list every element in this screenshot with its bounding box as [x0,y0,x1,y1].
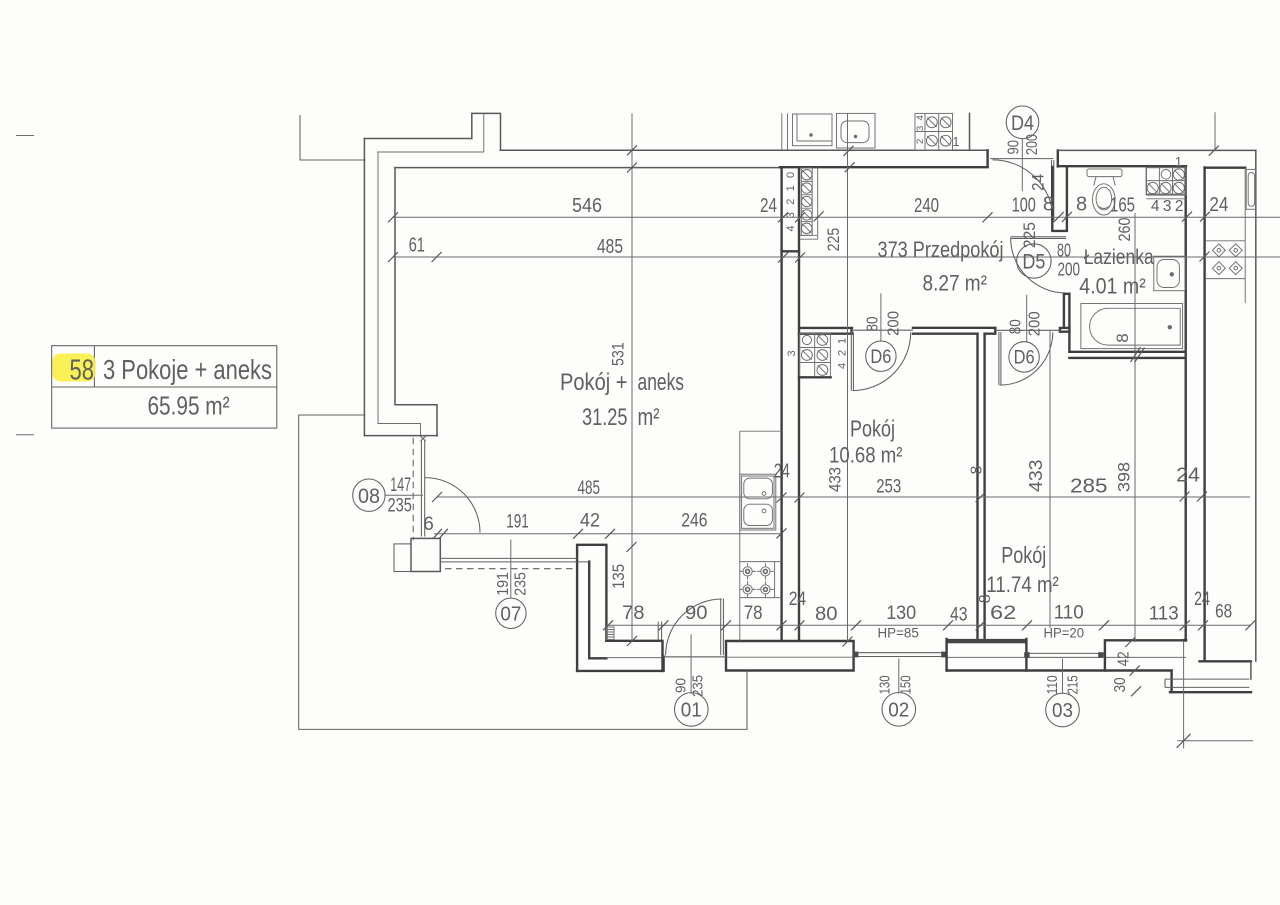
svg-text:8.27 m²: 8.27 m² [923,271,988,296]
svg-text:90: 90 [674,678,690,693]
outline of lower neighbouring area [299,415,747,729]
svg-text:3: 3 [785,212,797,218]
door 01 threshold [664,656,726,658]
svg-text:24: 24 [1194,588,1210,610]
svg-text:58: 58 [70,354,95,386]
chain C dimension line y=497 [437,496,1251,498]
door D6R arc [1000,332,1053,385]
D6R notch jamb [1060,328,1070,332]
hallway closet shelf column [801,167,817,239]
door D4 leaf [1052,160,1054,220]
svg-text:43: 43 [950,603,968,625]
bathtub [1081,304,1183,349]
svg-text:398: 398 [1115,462,1134,492]
svg-text:433: 433 [825,467,844,492]
svg-text:200: 200 [1024,134,1041,155]
bottom band left segment top [606,640,662,642]
window 03 end caps [1024,652,1029,658]
svg-text:78: 78 [744,602,763,624]
svg-text:24: 24 [774,461,790,483]
north wall outer right of D4 [1058,149,1256,151]
dashed lintel line window 07 [445,568,577,570]
right corner step edge [1250,661,1252,679]
kitchen wall cap at closet bottom [782,250,799,252]
SEC-TEXT [70,112,1233,722]
left margin dash bottom [16,434,34,436]
svg-text:62: 62 [990,602,1016,624]
door D6L sill [852,329,913,331]
svg-text:240: 240 [914,195,939,217]
ticks vertical chain x=632 [627,145,638,646]
ticks chain D [433,528,787,539]
SEC-DIMS [16,106,1280,749]
shower square neighbour top [793,114,833,146]
svg-text:D4: D4 [1011,112,1034,135]
svg-text:4: 4 [785,225,797,231]
svg-text:4: 4 [1151,198,1160,215]
svg-text:135: 135 [609,564,628,589]
closet digits column [785,172,797,232]
svg-text:90: 90 [1005,140,1022,155]
room divider wall segment B [913,328,995,334]
window 07 pier bold block [411,538,440,571]
svg-text:68: 68 [1215,600,1232,622]
SEC-FIX [607,113,1256,640]
svg-text:373 Przedpokój: 373 Przedpokój [878,237,1004,262]
door 01 left jamb [658,622,661,641]
svg-text:2: 2 [915,139,926,144]
chain A dimension line y=217 [393,216,1280,218]
svg-text:3: 3 [915,126,926,131]
callout 02 circle [882,693,916,727]
bottom band left outer face [577,657,664,671]
kitchen counter aneks [740,431,782,641]
west wall inner face [395,168,437,436]
svg-text:1: 1 [785,185,797,191]
kitchen strip left wall [1203,168,1205,662]
tick bathroom 260 chain double slash [1131,347,1145,363]
svg-text:546: 546 [572,195,602,217]
SEC-WALLS [299,113,1256,729]
svg-text:3 Pokoje + aneks: 3 Pokoje + aneks [103,354,272,385]
door D6L leaf [851,332,853,391]
callout 07 circle [496,598,526,628]
window 07 glazing [440,558,589,562]
svg-text:485: 485 [597,236,623,258]
bottom right thin band [1165,679,1249,687]
svg-text:31.25: 31.25 [582,404,628,431]
door 01 leaf [721,599,724,656]
svg-text:D6: D6 [870,346,891,368]
svg-text:80: 80 [1057,240,1071,260]
svg-text:2: 2 [785,199,797,205]
chain F dimension line bottom right [1177,740,1253,742]
callout D6 left circle [866,341,896,371]
apartment label box [52,346,277,428]
svg-text:65.95 m²: 65.95 m² [148,391,230,421]
ticks chain C [432,492,1207,503]
chimney slot line [483,113,485,152]
callout D5 circle [1017,244,1051,278]
north wall inner face [395,167,780,169]
svg-text:30: 30 [1112,677,1129,692]
svg-text:HP=20: HP=20 [1044,626,1085,641]
tick x=1215 top [1209,146,1219,156]
band left-of-door right edge [661,641,663,671]
kitchen strip top cap [1205,166,1246,168]
bathroom washbasin [1154,256,1185,291]
window 02 end caps [853,652,859,658]
extension line bottom right [1183,642,1185,749]
wardrobe closet pokoj 10.68 [800,333,831,378]
svg-text:11.74 m²: 11.74 m² [986,572,1059,597]
tick chain F [1177,734,1191,748]
svg-text:07: 07 [500,603,521,625]
window 07 pier thin part [394,544,411,572]
chain D dimension line y=534 [434,533,782,535]
svg-text:531: 531 [608,342,627,366]
svg-text:80: 80 [815,603,838,625]
hallway closet bottom bar [800,235,818,239]
svg-text:80: 80 [864,316,881,331]
svg-text:24: 24 [1209,194,1228,216]
svg-text:aneks: aneks [638,369,685,396]
hallway top wall / room divider wall segment A [799,328,852,334]
chain B dimension line y=257 [393,256,1280,258]
svg-text:8: 8 [1113,333,1132,342]
door D5 leaf [1011,237,1067,239]
corner piece left of door D4 [969,113,971,150]
svg-text:225: 225 [1020,222,1039,248]
bottom band 3 right of window 03 [1105,640,1186,670]
north wall inner face bold (hallway) [780,166,988,168]
extension line x=1050 [1049,330,1051,628]
svg-text:113: 113 [1149,602,1179,624]
svg-text:1: 1 [837,338,849,344]
north wall outer edge right segment [501,149,988,151]
D4 jamb [986,150,988,166]
svg-text:D5: D5 [1022,251,1045,274]
svg-text:3: 3 [786,350,798,356]
svg-text:1: 1 [953,135,960,149]
svg-text:110: 110 [1045,675,1061,694]
svg-text:130: 130 [877,675,893,694]
svg-text:130: 130 [886,602,916,624]
svg-text:246: 246 [681,510,707,531]
north wall inner right of D4 [1058,165,1186,167]
svg-text:80: 80 [1008,319,1025,334]
svg-text:HP=85: HP=85 [878,625,919,640]
chain E dimension line y=625 [605,624,1250,626]
svg-text:08: 08 [358,485,380,508]
svg-text:8: 8 [1043,194,1054,216]
window 03 glazing [1026,653,1102,657]
callout D6 right circle [1009,342,1039,372]
bottom right step outer [1170,671,1172,693]
ticks right step chain [1125,637,1141,696]
door D5 arc [1011,238,1066,293]
svg-text:4: 4 [915,115,926,120]
svg-text:433: 433 [1026,459,1046,492]
door D4 arc [993,160,1054,221]
svg-text:150: 150 [899,675,915,694]
neighbour sink top [837,113,876,148]
svg-text:8: 8 [969,466,986,475]
svg-text:Pokój +: Pokój + [560,369,628,396]
svg-text:10.68 m²: 10.68 m² [829,442,903,467]
callout 01 circle [675,693,709,727]
svg-text:191: 191 [506,511,529,532]
extension line x=1135 [1134,213,1136,642]
bottom right step bold base [1170,691,1251,693]
svg-text:24: 24 [1029,174,1048,191]
door 08 arc [425,478,480,533]
svg-text:03: 03 [1052,699,1073,722]
west wall bottom step [364,435,437,437]
toilet [1087,169,1122,215]
kitchen wall between big room and hallway [782,168,799,641]
bathroom bottom wall [1069,352,1185,358]
svg-text:225: 225 [824,228,843,252]
callout D4 circle [1006,106,1039,139]
svg-text:215: 215 [1065,675,1081,694]
svg-text:3: 3 [1163,198,1172,215]
svg-text:200: 200 [1027,311,1044,336]
bathroom right wall [1184,166,1186,640]
svg-text:0: 0 [785,172,797,178]
svg-text:260: 260 [1115,218,1134,242]
svg-text:Pokój: Pokój [1001,542,1046,568]
hatched vent on U-wall [607,627,614,640]
door 01 arc [666,599,722,655]
svg-text:4.01 m²: 4.01 m² [1079,273,1146,298]
pokoj 11.74 right wall bottom cap [1185,639,1186,641]
svg-text:485: 485 [578,478,601,499]
door D6R leaf [999,332,1001,385]
svg-text:78: 78 [622,602,644,624]
bottom band 2 (between windows) [947,639,1027,643]
svg-text:24: 24 [760,195,777,217]
neighbour boundary line top-left [300,115,366,160]
svg-text:01: 01 [681,699,702,722]
svg-text:100: 100 [1012,194,1036,216]
ticks chain E [603,620,1255,630]
washer shelf unit top centre [915,113,953,150]
kitchen double sink unit [740,474,776,530]
door 08 jamb-leaf [421,441,424,537]
svg-text:235: 235 [388,495,412,516]
svg-text:165: 165 [1110,194,1135,216]
inter-room wall between pokoj rooms [978,334,985,641]
svg-text:8: 8 [977,594,994,603]
U-wall bottom middle outer [577,545,606,671]
continuous inner sill line [664,656,1186,658]
svg-text:110: 110 [1054,601,1084,623]
svg-text:m²: m² [638,404,660,431]
kitchen strip counter edge [1244,168,1246,303]
bottom band left inner face [589,657,606,659]
window 02 glazing [855,653,947,657]
west wall middle layer [378,152,421,436]
washer-dryer unit bathroom right [1146,168,1186,199]
extension line x=632 [631,113,633,641]
svg-text:235: 235 [690,675,706,697]
door D6R sill [995,329,1060,331]
outer west wall [363,139,365,436]
extension line x=1215 [1214,112,1216,151]
svg-text:02: 02 [888,699,909,722]
svg-text:8: 8 [1076,194,1087,216]
svg-text:Łazienka: Łazienka [1084,245,1154,269]
door 08 x marker [421,436,426,441]
svg-text:235: 235 [512,572,529,596]
party wall stub above kitchen wall [782,113,788,150]
svg-text:191: 191 [495,572,512,596]
door D6L arc [852,332,910,390]
hall-bath wall lower [1064,294,1070,352]
ticks chain B [388,252,1210,263]
bottom band 1 outline [726,641,854,671]
svg-text:285: 285 [1070,476,1108,498]
svg-text:1: 1 [1175,154,1182,169]
svg-text:200: 200 [1058,260,1081,280]
north wall outer edge left of chimney [364,138,471,140]
svg-text:24: 24 [1176,464,1200,486]
kitchen strip hob [1206,241,1245,279]
dashed jamb line door 08 [412,438,414,541]
north wall second line [377,151,484,153]
ticks vertical chain x=847.5 [843,146,855,647]
svg-text:61: 61 [409,234,425,256]
washer small digits [915,115,926,144]
kitchen hob aneks [739,562,781,598]
east outer wall [1255,150,1257,661]
bottom band 2 outer face [947,669,1172,671]
chimney protrusion [472,113,501,150]
svg-text:D6: D6 [1014,347,1035,369]
right corner wall cap [1200,660,1251,662]
extension line x=847.5 [847,113,849,642]
D4 right jamb [1057,150,1059,166]
svg-text:2: 2 [837,350,849,356]
callout 08 circle [353,479,385,511]
band interior sill line [606,657,662,659]
svg-text:253: 253 [876,477,901,498]
kitchen strip sink [1246,169,1255,209]
svg-text:147: 147 [390,475,411,496]
hall-bath wall upper [1052,166,1067,231]
svg-text:42: 42 [580,510,600,531]
svg-text:200: 200 [886,311,903,336]
door D4 sill [990,158,1053,160]
left margin dash top [16,135,34,137]
U-wall inner [588,562,590,659]
wardrobe digits [786,338,849,369]
svg-text:6: 6 [423,514,434,535]
svg-text:Pokój: Pokój [850,416,895,442]
ticks chain A [388,211,1210,222]
wardrobe bottom bold edge [799,376,831,378]
svg-text:24: 24 [789,588,807,610]
svg-text:42: 42 [1116,651,1133,666]
svg-text:4: 4 [837,363,849,369]
callout 03 circle [1046,693,1080,727]
svg-text:2: 2 [1175,198,1184,215]
svg-text:90: 90 [685,602,708,624]
